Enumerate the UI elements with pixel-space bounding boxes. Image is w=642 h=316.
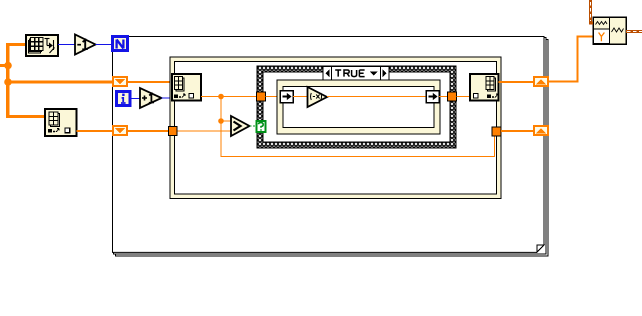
in-place-element structure (inner loop) border: [170, 57, 501, 199]
wire to left shift register 1: [6, 80, 113, 83]
wire index array 2 out to left shift register 2: [77, 130, 114, 132]
wire lower input to greater: [170, 130, 231, 132]
case right tunnel: [448, 92, 457, 101]
case selector terminal ?: [257, 121, 266, 132]
wire case tunnel to ipe node: [266, 96, 281, 98]
for-loop outer page 3 (stacked back): [116, 40, 549, 257]
wire green greater to selector: [250, 125, 257, 127]
array size icon: [26, 35, 58, 56]
loop count terminal N: [113, 37, 128, 51]
wire waveform out to right edge: [626, 30, 642, 33]
junction dot 1: [218, 94, 224, 100]
wire right arrow node to case tunnel: [439, 96, 448, 98]
right shift register 2: [534, 126, 548, 135]
greater? comparison: [231, 116, 250, 136]
inner loop left tunnel: [169, 127, 178, 136]
wire junction2 to greater input: [221, 120, 231, 122]
wire blue array size to -1: [58, 44, 75, 46]
wire shift register 1 to index array node: [127, 81, 173, 83]
right shift register 1: [534, 77, 548, 86]
junction dot B: [4, 78, 12, 86]
replace array element border node: [470, 74, 499, 101]
wire blue -1 to N: [96, 44, 113, 46]
wire blue i to +1: [130, 98, 140, 100]
wire waveform in from top: [591, 0, 594, 23]
wire negate to right arrow node: [327, 96, 426, 98]
junction dot 2: [218, 118, 224, 124]
case structure border: [257, 66, 456, 148]
left shift register 2: [113, 126, 127, 135]
wire element out of index array: [201, 96, 258, 98]
ipe left arrow node: [280, 91, 293, 103]
increment +1: [140, 88, 162, 108]
wire arrow node to negate: [293, 96, 308, 98]
dog-ear fold: [537, 245, 544, 252]
wire to array size: [6, 43, 26, 46]
negate function: [308, 87, 328, 107]
iteration terminal i: [117, 92, 131, 106]
junction dot A: [4, 62, 12, 70]
left shift register 1: [113, 77, 127, 86]
for-loop outer border page 1 with dog-ear corner: [113, 37, 545, 253]
wire to index array 2: [6, 115, 46, 118]
for-loop outer page 2 (stacked middle): [114, 38, 547, 255]
index array border node: [172, 74, 201, 101]
in-place element structure 2 border: [277, 80, 440, 134]
case left tunnel: [257, 92, 266, 101]
inner loop right tunnel: [492, 127, 501, 136]
wire array from left edge: [0, 64, 8, 67]
case selector label TRUE: [323, 67, 389, 81]
wire case right tunnel to replace node: [457, 96, 471, 98]
index array 2 icon: [45, 109, 77, 136]
build waveform icon: [593, 17, 626, 44]
wire down to junction 2: [220, 97, 222, 122]
ipe right arrow node: [426, 91, 439, 103]
wire replaced array out to right shift register 1: [499, 81, 535, 83]
wire tunnel to right shift register 2: [501, 130, 534, 132]
wire blue +1 to index array node: [162, 97, 173, 99]
wire vertical array bus: [6, 45, 9, 117]
wire junction2 down and right to output tunnel: [221, 121, 495, 157]
wire shift register 2 to inner tunnel: [127, 130, 170, 132]
wire shift register 1 to build waveform Y: [548, 37, 593, 82]
decrement -1: [75, 35, 96, 55]
